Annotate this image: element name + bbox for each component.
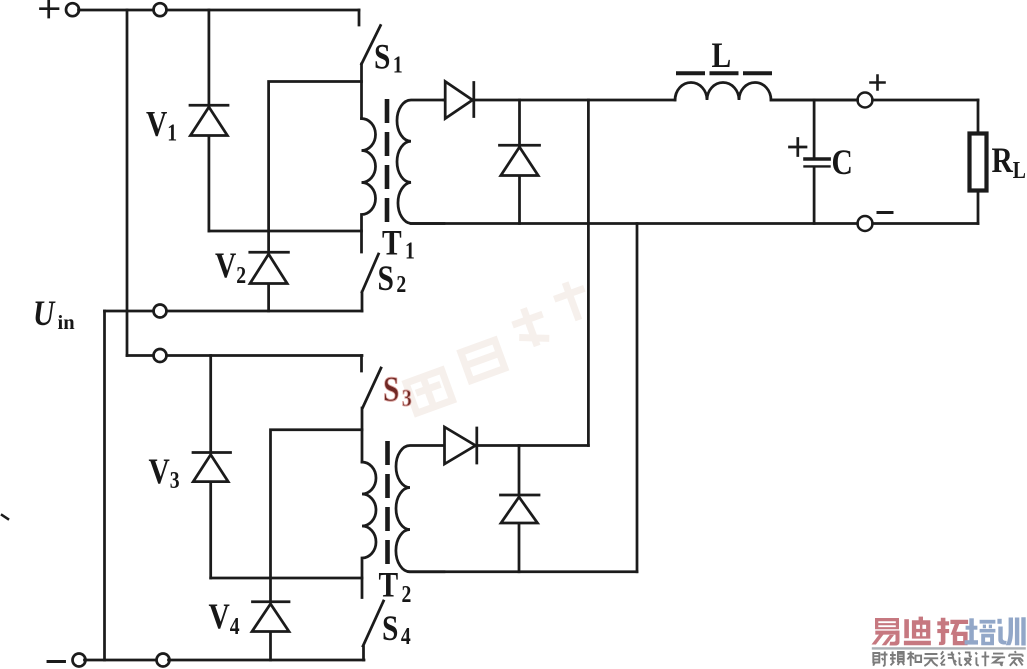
resistor RL [970,100,987,224]
switch S1 [359,10,381,64]
wire left rail down [103,311,106,660]
watermark underline [872,647,1026,649]
switch S4 [363,601,384,660]
svg-text:U: U [33,294,56,333]
terminal mid row1 [154,305,167,318]
wire bottom rail [85,659,365,662]
watermark subtitle xian [941,651,957,665]
wire mid row1 [105,310,363,313]
wire top rail [79,9,360,12]
svg-text:V1: V1 [146,105,177,146]
watermark char di (red) [904,617,931,646]
svg-text:L: L [712,36,732,75]
transformer T1 primary winding [362,119,376,253]
watermark subtitle she [873,652,887,666]
transformer T2 primary winding [362,462,376,598]
svg-text:T1: T1 [382,224,415,264]
diode V2 [250,252,289,311]
wire lower output bottom rail [410,570,637,573]
label + (input plus) [41,1,59,18]
wire top rail to output [771,99,978,102]
terminal top second [154,3,167,16]
terminal mid row2 [154,349,167,362]
terminal output + [858,93,873,108]
wire V3 bottom to T2 primary [211,577,362,580]
svg-text:V3: V3 [149,452,180,493]
watermark subtitle pin [890,652,905,666]
watermark subtitle zhuan [992,654,1005,666]
switch S2 [362,254,379,311]
label - (input minus) [48,660,65,663]
wire parallel link vertical upper [587,100,590,446]
diode V1 [190,10,228,231]
watermark subtitle ji [975,652,989,667]
svg-text:RL: RL [992,141,1026,183]
switch S3 [362,356,382,463]
svg-text:V4: V4 [209,597,240,639]
watermark subtitle jia [1009,651,1023,666]
transformer T2 secondary winding [396,446,444,572]
inductor L core bar [676,71,772,75]
wire V4 branch top [271,430,363,601]
label + output [871,76,885,90]
diode V4 [252,602,289,660]
diode VD4 freewheel lower [501,446,540,572]
watermark subtitle he [907,651,921,666]
diode V3 [193,356,231,579]
wire upper output bottom rail [411,222,978,225]
svg-text:S2: S2 [378,259,407,298]
watermark subtitle she2 [958,652,972,665]
wire V2 branch top [269,82,362,251]
svg-text:S4: S4 [382,609,411,649]
watermark char xun (blue) [997,617,1025,645]
terminal output - [858,216,873,231]
wire S1 to T1 primary top [360,64,363,119]
wire upper output top rail [444,99,675,102]
faint center ghost watermark [392,277,605,413]
diode VD2 freewheel upper [500,100,540,224]
speck left edge [2,515,8,519]
capacitor C [805,100,830,224]
svg-text:in: in [58,312,76,334]
terminal input - bottom-left [73,654,86,667]
watermark char pei (blue) [965,618,996,645]
svg-text:S1: S1 [374,38,403,78]
wire V1 bottom to primary [209,230,362,233]
wire left vertical from top rail [126,10,129,356]
transformer T1 core [385,99,390,228]
wire parallel link vertical lower [636,224,639,572]
svg-text:C: C [832,143,853,182]
diode VD1 output rectifier upper [445,82,474,119]
transformer T1 secondary winding [397,100,444,224]
diode VD3 output rectifier lower [445,427,477,464]
terminal bottom second [157,654,170,667]
watermark char tuo (red) [937,618,968,645]
label + capacitor polarity [790,139,807,156]
transformer T2 core [385,441,390,574]
svg-text:V2: V2 [215,246,246,288]
svg-text:S3: S3 [383,370,412,411]
terminal input + top-left [66,3,79,16]
wire mid row2 [127,354,362,357]
wire lower output top rail [477,444,588,447]
inductor L [675,83,858,101]
watermark subtitle tian [924,654,938,666]
label - output [878,211,892,214]
watermark char yi (red) [872,618,900,646]
